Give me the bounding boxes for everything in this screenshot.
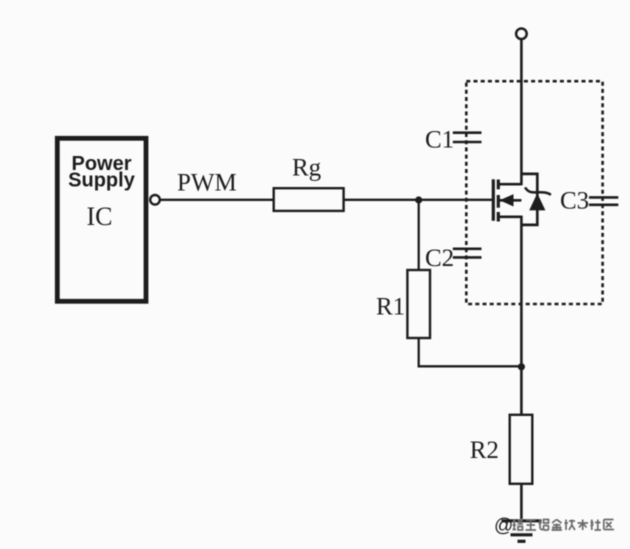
svg-text:Supply: Supply	[68, 170, 136, 192]
svg-text:Rg: Rg	[292, 155, 322, 182]
svg-text:C2: C2	[425, 245, 454, 272]
svg-text:PWM: PWM	[177, 169, 237, 196]
svg-text:R1: R1	[376, 294, 405, 321]
svg-text:IC: IC	[87, 202, 113, 231]
svg-text:R2: R2	[470, 437, 499, 464]
svg-text:@: @	[494, 516, 513, 537]
svg-text:C3: C3	[560, 188, 589, 215]
svg-text:C1: C1	[425, 127, 454, 154]
